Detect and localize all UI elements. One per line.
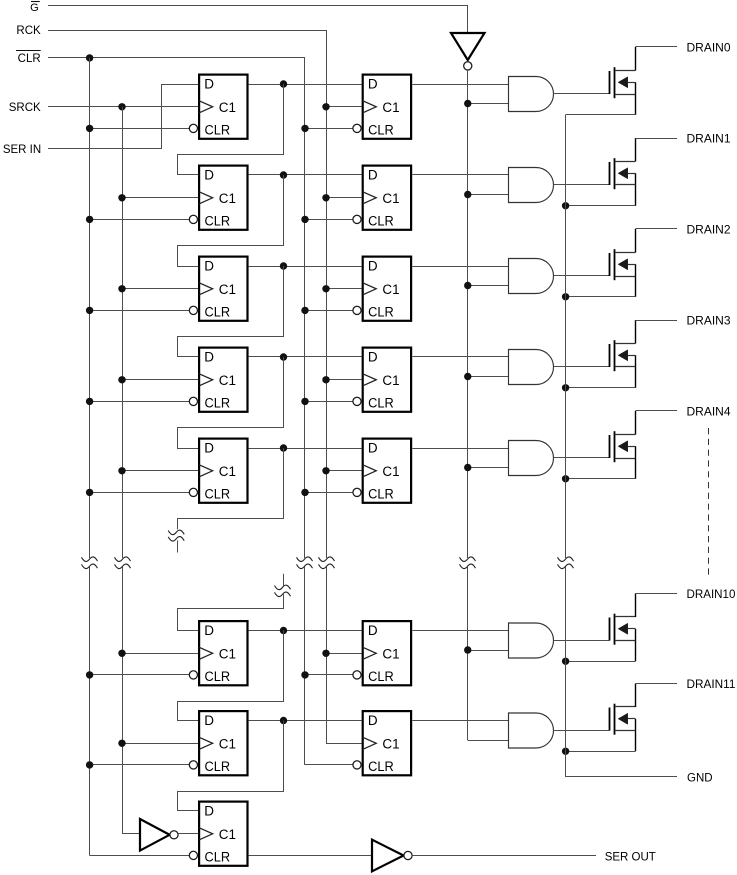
D flip-flop shift stage 0 [189,75,247,139]
wire CLR bus to storage flip-flop 10 CLR [305,674,353,676]
svg-text:D: D [204,803,214,818]
svg-text:CLR: CLR [205,213,231,228]
D flip-flop storage stage 2 [353,257,411,321]
wire AND gate 0 output to transistor gate [554,93,610,95]
svg-text:GND: GND [687,773,713,785]
wire shift stage 1 Q to stage 2 D (stair) [178,175,284,267]
svg-text:CLR: CLR [205,122,231,137]
break mark right CLR bus [297,557,313,569]
label DRAIN0 [687,43,731,55]
wire SER IN to first flip-flop D input [48,85,198,149]
junction SRCK bus stage 10 [118,650,125,657]
junction stage 1 Q branch [280,171,287,178]
junction G-bar bus stage 0 [464,100,471,107]
svg-text:C1: C1 [219,373,236,388]
wire CLR bus to shift flip-flop 3 CLR [90,401,190,403]
wire storage stage 0 Q to AND gate input [412,84,508,86]
wire G-bar bus to AND gate 1 input [468,194,509,196]
svg-text:C1: C1 [219,100,236,115]
junction RCK bus stage 2 [322,285,329,292]
svg-text:D: D [368,76,378,91]
junction ground rail stage 2 [562,293,569,300]
wire SRCK bus to shift flip-flop 1 clock [122,197,198,199]
junction right CLR bus stage 2 [301,307,308,314]
label G (active-low enable input) with overbar [30,2,40,14]
svg-text:D: D [368,713,378,728]
label DRAIN4 [687,407,732,419]
junction left CLR bus stage 0 [86,125,93,132]
junction RCK bus stage 4 [322,467,329,474]
junction ground rail stage 3 [562,384,569,391]
D flip-flop storage stage 4 [353,439,411,503]
wire SRCK bus to shift flip-flop 2 clock [122,288,198,290]
svg-text:CLR: CLR [368,669,394,684]
wire CLR bus to shift flip-flop 4 CLR [90,492,190,494]
svg-text:D: D [368,349,378,364]
wire G-bar bus to AND gate 4 input [468,467,509,469]
D flip-flop shift stage 4 [189,439,247,503]
svg-text:D: D [204,349,214,364]
inverter U1 (G enable inverter) [451,33,485,70]
svg-text:CLR: CLR [368,395,394,410]
wire shift stage 2 Q to stage 3 D (stair) [178,266,284,357]
junction stage 0 Q branch [280,80,287,87]
wire transistor 1 source to ground rail [566,205,636,207]
svg-text:C1: C1 [382,464,399,479]
D flip-flop storage stage 11 [353,711,411,775]
wire transistor 4 source to ground rail [566,478,636,480]
D flip-flop storage stage 0 [353,75,411,139]
svg-text:C1: C1 [219,191,236,206]
wire AND gate 1 output to transistor gate [554,184,610,186]
svg-text:C1: C1 [382,191,399,206]
label SRCK [9,102,41,114]
svg-text:CLR: CLR [368,122,394,137]
AND gate stage 3 [509,350,554,385]
D flip-flop SER OUT stage [189,802,247,866]
junction ground rail stage 4 [562,475,569,482]
wire shift stage 10 Q to stage 11 D (stair) [178,631,284,721]
wire shift stage 1 Q to storage stage 1 D [249,174,362,176]
wire CLR bus to storage flip-flop 3 CLR [305,401,353,403]
junction SRCK bus stage 11 [118,740,125,747]
wire shift stage 10 D entry stub (broken) [178,574,284,631]
wire shift stage 3 Q to stage 4 D (stair) [178,357,284,449]
junction left CLR bus stage 10 [86,671,93,678]
junction G-bar bus stage 10 [464,646,471,653]
AND gate stage 2 [509,259,554,294]
break mark G-bar bus [460,557,476,569]
junction stage 2 Q branch [280,262,287,269]
junction stage 10 Q branch [280,627,287,634]
D flip-flop storage stage 3 [353,348,411,412]
wire shift stage 4 Q continuation stub (broken) [178,448,284,553]
svg-text:D: D [368,623,378,638]
label DRAIN1 [687,134,731,146]
D flip-flop shift stage 1 [189,166,247,230]
junction left CLR bus stage 4 [86,489,93,496]
junction RCK bus stage 3 [322,376,329,383]
junction stage 4 Q branch [280,444,287,451]
wire G input to inverter U1 input [48,6,468,34]
svg-text:C1: C1 [219,736,236,751]
svg-text:C1: C1 [382,646,399,661]
svg-text:SRCK: SRCK [9,102,41,114]
svg-text:C1: C1 [382,282,399,297]
power DMOS transistor DRAIN2 driver [610,229,636,297]
junction CLR line / left CLR bus [86,54,93,61]
AND gate stage 0 [509,77,554,112]
svg-text:CLR: CLR [368,759,394,774]
wire shift stage 11 Q to SER OUT flip-flop D (stair) [178,721,284,811]
power DMOS transistor DRAIN1 driver [610,138,636,206]
label DRAIN11 [687,679,736,691]
AND gate stage 4 [509,441,554,476]
svg-text:D: D [368,258,378,273]
label CLR (active low) with overbar [16,51,41,66]
break mark stage-4 continuation [168,530,184,541]
svg-text:CLR: CLR [368,486,394,501]
label GND [687,773,713,785]
break mark left CLR bus [82,557,98,569]
wire AND gate 4 output to transistor gate [554,457,610,459]
D flip-flop shift stage 2 [189,257,247,321]
D flip-flop storage stage 1 [353,166,411,230]
svg-text:DRAIN10: DRAIN10 [687,589,736,601]
svg-text:C1: C1 [219,464,236,479]
junction ground rail stage 10 [562,658,569,665]
svg-text:C1: C1 [382,100,399,115]
label DRAIN3 [687,316,731,328]
wire RCK bus to storage flip-flop 3 clock [326,379,362,381]
wire shift stage 2 Q to storage stage 2 D [249,266,362,268]
svg-text:CLR: CLR [205,395,231,410]
junction left CLR bus stage 2 [86,307,93,314]
wire SRCK bus to shift flip-flop 11 clock [122,743,198,745]
wire SRCK bus to shift flip-flop 4 clock [122,470,198,472]
wire transistor 11 source to ground rail [566,751,636,753]
power DMOS transistor DRAIN3 driver [610,320,636,388]
junction G-bar bus stage 3 [464,373,471,380]
svg-text:D: D [204,76,214,91]
label RCK [16,25,41,37]
wire CLR bus to storage flip-flop 2 CLR [305,310,353,312]
inverter U2 (SRCK clock inverter) [140,819,178,851]
wire G-bar bus to AND gate 0 input [468,103,509,105]
junction G-bar bus stage 1 [464,191,471,198]
label SER OUT [605,852,656,864]
svg-text:DRAIN2: DRAIN2 [687,225,731,237]
svg-text:CLR: CLR [205,304,231,319]
junction SRCK bus stage 3 [118,376,125,383]
wire CLR bus to shift flip-flop 2 CLR [90,310,190,312]
svg-text:CLR: CLR [368,304,394,319]
junction left CLR bus stage 11 [86,761,93,768]
wire SRCK bus (down to clock inverter, with break) [122,107,140,834]
break mark RCK bus [319,557,335,569]
junction right CLR bus stage 3 [301,398,308,405]
wire CLR bus to shift flip-flop 11 CLR [90,764,190,766]
wire drain to DRAIN0 terminal [635,46,677,48]
wire to SER OUT terminal [412,855,596,857]
wire RCK bus to storage flip-flop 2 clock [326,288,362,290]
dashed continuation line DRAIN4 to DRAIN10 [708,428,710,579]
wire RCK bus to storage flip-flop 10 clock [326,653,362,655]
junction right CLR bus stage 10 [301,671,308,678]
label SER IN [3,144,41,156]
svg-text:SER OUT: SER OUT [605,852,656,864]
junction stage 3 Q branch [280,353,287,360]
wire shift stage 0 Q to stage 1 D (stair) [178,84,284,175]
wire CLR bus to shift flip-flop 10 CLR [90,674,190,676]
svg-text:C1: C1 [219,282,236,297]
junction right CLR bus stage 0 [301,125,308,132]
wire left CLR bus (down to SER OUT flip-flop, with break) [90,58,190,856]
power DMOS transistor DRAIN0 driver [610,47,636,115]
wire AND gate 11 output to transistor gate [554,730,610,732]
wire drain to DRAIN11 terminal [635,683,677,685]
wire CLR line and right-column CLR bus (with break) [48,58,353,765]
svg-text:SER IN: SER IN [3,144,41,156]
junction RCK bus stage 1 [322,194,329,201]
wire drain to DRAIN3 terminal [635,320,677,322]
wire G-bar bus (inverter output down to AND gates, with break) [468,70,509,741]
wire transistor 2 source to ground rail [566,296,636,298]
wire shift stage 3 Q to storage stage 3 D [249,356,362,358]
wire RCK bus to storage flip-flop 4 clock [326,470,362,472]
wire CLR bus to shift flip-flop 0 CLR [90,128,190,130]
wire AND gate 3 output to transistor gate [554,366,610,368]
junction left CLR bus stage 1 [86,216,93,223]
wire CLR bus to storage flip-flop 1 CLR [305,219,353,221]
wire shift stage 10 Q to storage stage 10 D [249,630,362,632]
AND gate stage 11 [509,713,554,748]
AND gate stage 1 [509,168,554,203]
svg-text:D: D [368,167,378,182]
break mark ground rail [558,557,574,569]
wire shift stage 0 Q to storage stage 0 D [249,84,362,86]
wire SRCK bus to shift flip-flop 10 clock [122,653,198,655]
break mark SRCK bus [115,557,131,569]
wire drain to DRAIN4 terminal [635,410,677,412]
wire storage stage 2 Q to AND gate input [412,266,508,268]
wire clock inverter output to SER OUT flip-flop clock [178,833,198,835]
junction RCK bus stage 0 [322,103,329,110]
wire SER OUT flip-flop Q to output inverter [249,855,372,857]
svg-text:CLR: CLR [368,213,394,228]
break mark stage-10 entry [275,585,291,596]
wire storage stage 4 Q to AND gate input [412,448,508,450]
AND gate stage 10 [509,623,554,658]
power DMOS transistor DRAIN11 driver [610,684,636,752]
label DRAIN2 [687,225,731,237]
wire drain to DRAIN10 terminal [635,593,677,595]
junction left CLR bus stage 3 [86,398,93,405]
svg-text:CLR: CLR [205,669,231,684]
wire AND gate 2 output to transistor gate [554,275,610,277]
wire transistor 0 source to ground rail [566,114,636,116]
svg-text:DRAIN3: DRAIN3 [687,316,731,328]
svg-text:D: D [204,440,214,455]
wire drain to DRAIN2 terminal [635,228,677,230]
power DMOS transistor DRAIN4 driver [610,411,636,479]
svg-text:D: D [204,167,214,182]
svg-text:CLR: CLR [205,759,231,774]
junction ground rail stage 11 [562,748,569,755]
svg-text:DRAIN4: DRAIN4 [687,407,732,419]
wire SRCK bus to shift flip-flop 3 clock [122,379,198,381]
wire storage stage 11 Q to AND gate input [412,720,508,722]
svg-text:DRAIN0: DRAIN0 [687,43,731,55]
svg-text:C1: C1 [219,646,236,661]
wire SRCK input line to first shift flip-flop clock [48,106,198,108]
wire CLR bus to storage flip-flop 11 CLR [305,764,353,766]
D flip-flop storage stage 10 [353,621,411,685]
svg-text:D: D [204,713,214,728]
wire drain to DRAIN1 terminal [635,138,677,140]
svg-text:CLR: CLR [205,849,231,864]
junction SRCK bus stage 4 [118,467,125,474]
junction SRCK line / SRCK bus [118,103,125,110]
wire G-bar bus to AND gate 2 input [468,285,509,287]
junction SRCK bus stage 1 [118,194,125,201]
junction right CLR bus stage 4 [301,489,308,496]
svg-text:C1: C1 [219,827,236,842]
wire RCK bus to storage flip-flop 11 clock [326,743,362,745]
svg-text:DRAIN1: DRAIN1 [687,134,731,146]
svg-text:D: D [204,623,214,638]
junction SRCK bus stage 2 [118,285,125,292]
svg-text:D: D [204,258,214,273]
inverter U3 (SER OUT buffer) [372,840,412,872]
svg-text:C1: C1 [382,736,399,751]
junction stage 11 Q branch [280,717,287,724]
wire transistor 3 source to ground rail [566,387,636,389]
wire shift stage 4 Q to storage stage 4 D [249,448,362,450]
wire G-bar bus to AND gate 3 input [468,376,509,378]
junction G-bar bus stage 4 [464,464,471,471]
wire storage stage 10 Q to AND gate input [412,630,508,632]
wire storage stage 3 Q to AND gate input [412,356,508,358]
wire AND gate 10 output to transistor gate [554,640,610,642]
wire transistor 10 source to ground rail [566,661,636,663]
wire G-bar bus to AND gate 10 input [468,650,509,652]
junction right CLR bus stage 1 [301,216,308,223]
wire RCK bus to storage flip-flop 1 clock [326,197,362,199]
wire CLR bus to storage flip-flop 0 CLR [305,128,353,130]
wire ground rail (common sources to GND, with break) [566,115,678,777]
svg-text:CLR: CLR [205,486,231,501]
wire RCK bus to storage flip-flop 0 clock [326,106,362,108]
svg-text:CLR: CLR [18,53,41,65]
D flip-flop shift stage 3 [189,348,247,412]
junction G-bar bus stage 2 [464,282,471,289]
wire RCK bus (top run and vertical to storage-register clocks, with break) [48,31,362,744]
power DMOS transistor DRAIN10 driver [610,594,636,662]
label DRAIN10 [687,589,736,601]
svg-text:D: D [368,440,378,455]
wire shift stage 11 Q to storage stage 11 D [249,720,362,722]
svg-text:C1: C1 [382,373,399,388]
junction ground rail stage 1 [562,202,569,209]
svg-text:G: G [30,2,39,14]
wire storage stage 1 Q to AND gate input [412,174,508,176]
wire G-bar bus to AND gate 11 input [468,740,509,742]
svg-text:DRAIN11: DRAIN11 [687,679,736,691]
svg-text:RCK: RCK [16,25,41,37]
junction RCK bus stage 10 [322,650,329,657]
D flip-flop shift stage 10 [189,621,247,685]
D flip-flop shift stage 11 [189,711,247,775]
wire CLR bus to shift flip-flop 1 CLR [90,219,190,221]
wire CLR bus to storage flip-flop 4 CLR [305,492,353,494]
